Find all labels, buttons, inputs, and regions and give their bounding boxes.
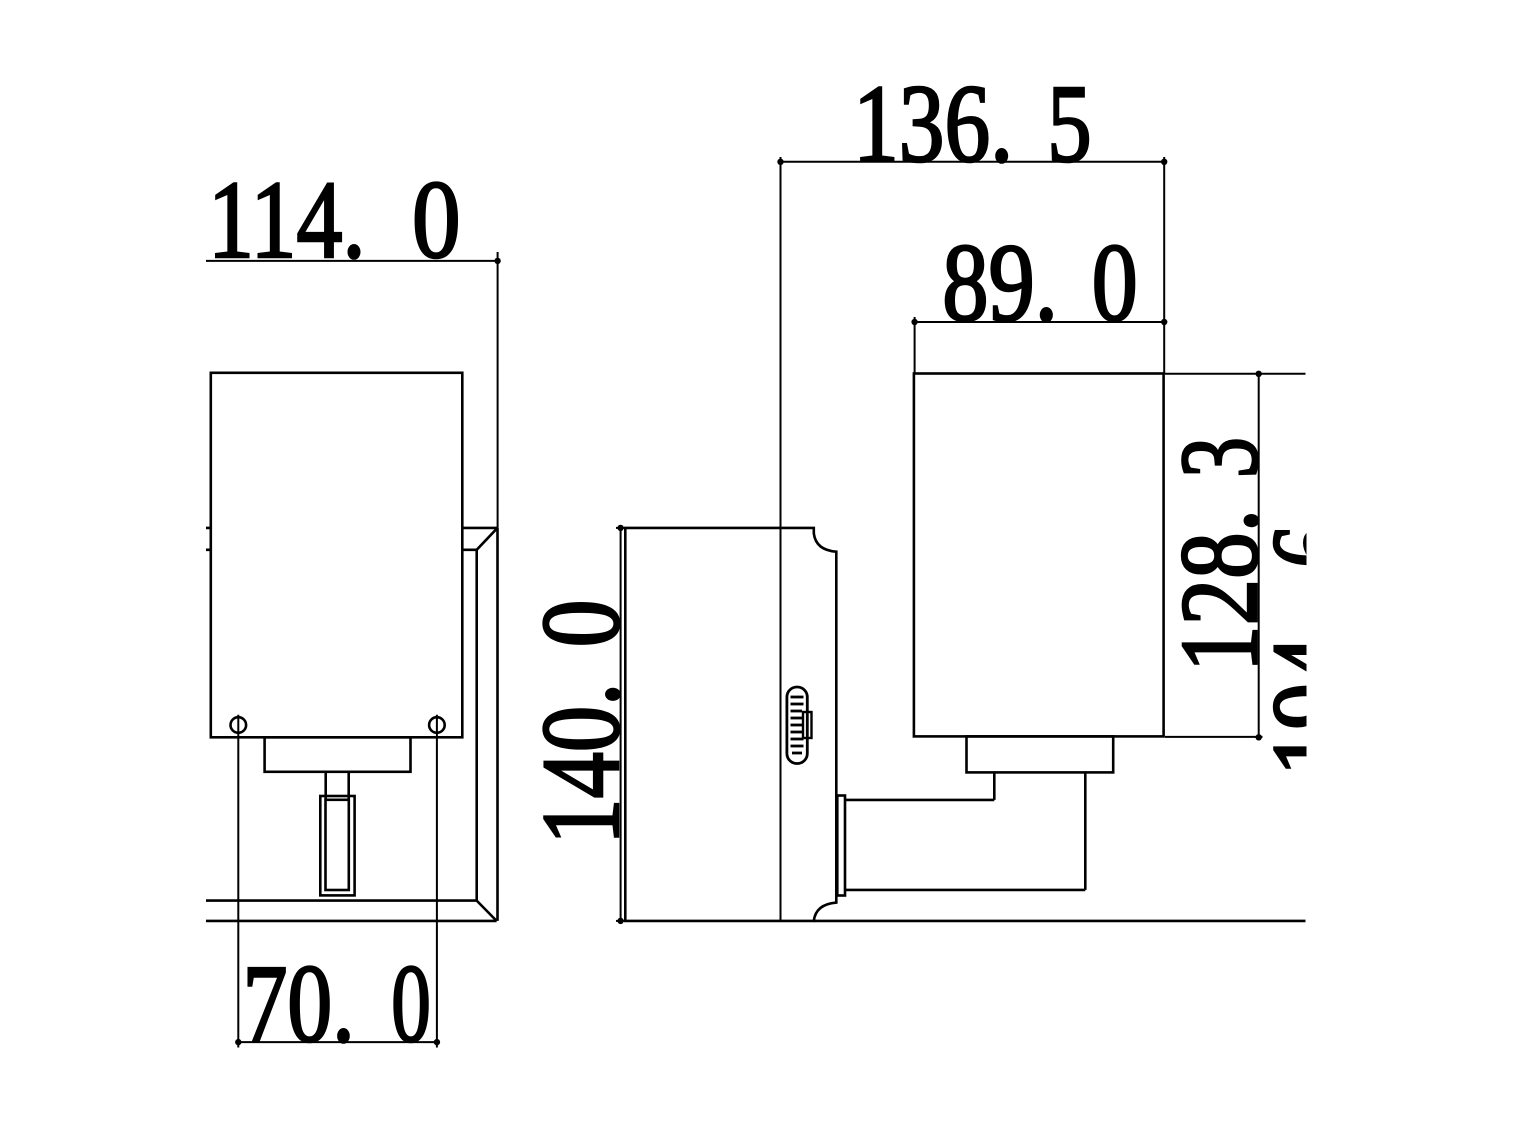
- dimension 114.0 right extension: [497, 252, 499, 528]
- svg-text:3: 3: [1159, 437, 1282, 478]
- dimension 128.3 line: [1258, 374, 1260, 738]
- side view: arm top edge: [845, 799, 994, 802]
- side view: neck right line: [1084, 772, 1087, 890]
- front view: left screw: [231, 717, 247, 733]
- front view: shade holder: [265, 737, 411, 772]
- front view: stem left line: [324, 772, 327, 800]
- side view: glass shade: [914, 374, 1164, 737]
- front view: switch knob inner: [326, 800, 349, 890]
- front view: backplate outer top edge: [206, 527, 498, 530]
- front view: right screw: [429, 717, 445, 733]
- side view: logo stamp capsule: [787, 687, 807, 764]
- front view: left screw extension line: [237, 715, 239, 1048]
- svg-text:0: 0: [391, 943, 431, 1066]
- front view: backplate outer bottom edge (wall line): [206, 920, 497, 923]
- front view: glass shade rectangle: [211, 373, 462, 738]
- front view: switch knob outer: [320, 796, 354, 895]
- dimension 140.0 line: [620, 528, 622, 921]
- side view: logo stamp tab: [803, 712, 812, 738]
- dimension text 140.0 (rotated): [520, 600, 643, 845]
- right image crop mask: [1307, 0, 1514, 1135]
- front view: backplate outer right edge: [496, 528, 499, 921]
- dimension 140.0 extension stubs: [616, 527, 625, 529]
- svg-text:0: 0: [520, 600, 643, 648]
- front view: backplate inner right edge: [475, 550, 478, 901]
- dimension end ticks: [235, 159, 1262, 1046]
- side view: neck left line: [993, 772, 996, 800]
- dimension 136.5 / 89.0 right extension: [1163, 157, 1165, 374]
- svg-text:136.: 136.: [853, 63, 1013, 186]
- dimension 128.3 top extension: [1165, 373, 1306, 375]
- svg-text:70.: 70.: [243, 943, 355, 1066]
- svg-text:0: 0: [412, 159, 461, 282]
- dimension text 194.6 (rotated, clipped at image edge): [1250, 525, 1373, 776]
- side view: logo stamp text marks: [791, 697, 804, 753]
- front view: backplate bottom-right bevel: [477, 901, 497, 921]
- side view: shade holder: [967, 736, 1114, 772]
- front view: stem right line: [347, 772, 350, 800]
- side view: arm bottom edge: [845, 889, 1085, 892]
- dimension 128.3 bottom extension: [1165, 736, 1263, 738]
- svg-text:5: 5: [1047, 63, 1091, 186]
- front view: right screw extension line: [436, 715, 438, 1048]
- dimension 114.0 line: [206, 260, 498, 262]
- front view: backplate inner bottom edge: [206, 899, 477, 902]
- dimension 70.0 line: [238, 1041, 437, 1043]
- front view: backplate top-right bevel: [477, 528, 498, 550]
- svg-text:114.: 114.: [208, 159, 366, 282]
- svg-text:140.: 140.: [520, 683, 643, 845]
- dimension 89.0 left extension: [914, 317, 916, 374]
- dimension 89.0 line: [915, 321, 1165, 323]
- dimension text 128.3 (rotated): [1159, 437, 1282, 672]
- front view: backplate inner (bevel) top edge: [206, 548, 477, 551]
- side view: mounting flange: [837, 796, 845, 896]
- dimension 136.5 line: [781, 161, 1165, 163]
- svg-text:89.: 89.: [942, 222, 1058, 345]
- side view: wall line: [814, 920, 1306, 923]
- side view: backplate profile with cove corners: [625, 528, 836, 921]
- svg-text:0: 0: [1092, 222, 1138, 345]
- dimension 136.5 left extension: [780, 157, 782, 921]
